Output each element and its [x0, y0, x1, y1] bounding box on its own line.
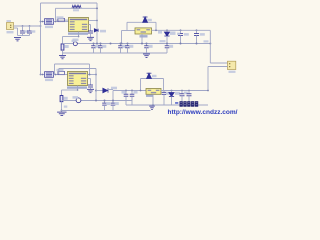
zener ZD1 — [164, 32, 169, 36]
capacitor C7 — [194, 34, 199, 36]
ground bypass2 — [87, 89, 94, 92]
node choke right — [55, 21, 57, 23]
label C6b — [177, 33, 180, 35]
junction J1 rail / C2 — [29, 25, 31, 27]
wire output right vertical — [209, 30, 211, 63]
capacitor C9 — [124, 94, 129, 96]
wire input cap B lead — [131, 91, 133, 95]
wire R2 to gnd rail — [62, 50, 64, 55]
wire J1 pin2 down — [14, 27, 18, 29]
wire Y-cap 4 top lead — [127, 44, 129, 46]
capacitor C13 — [162, 92, 167, 94]
label L2 — [45, 79, 53, 81]
capacitor C11 — [180, 94, 185, 96]
label ZD2 — [175, 92, 180, 95]
wire reg input — [122, 30, 136, 32]
wire to J2 pin2 — [208, 66, 228, 68]
label R2 — [65, 45, 69, 48]
junction rail / right vertical — [209, 43, 211, 45]
wire loop2 right down — [163, 79, 165, 91]
wire C7 bottom lead — [196, 36, 198, 44]
junction CY4 on rail — [127, 43, 129, 45]
capacitor C3 — [88, 31, 93, 33]
wire input ground rail — [18, 35, 30, 37]
wire Y-cap2 1 top lead — [104, 101, 106, 104]
wire rail to choke — [41, 21, 45, 23]
regulator U2 text — [137, 29, 150, 33]
wire Y-cap2 1 bottom lead — [104, 105, 106, 110]
capacitor C6 — [178, 34, 183, 36]
wire Y-cap 1 top lead — [93, 44, 95, 46]
wire bypass2 to gnd — [90, 87, 92, 89]
wire Y-cap 3 bottom lead — [120, 48, 122, 53]
junction drain line / rail — [96, 43, 98, 45]
svg-text:http://www.cndzz.com/: http://www.cndzz.com/ — [168, 109, 238, 116]
wire R3 to gnd — [61, 102, 63, 111]
diode D3 — [103, 88, 108, 93]
capacitor CY1 — [91, 46, 96, 48]
wire rail2 to choke — [41, 74, 45, 76]
IC U1 — [69, 18, 89, 32]
junction zener / output — [166, 29, 168, 31]
label C7 — [200, 33, 205, 36]
label C13 — [166, 92, 170, 95]
junction loop / output — [155, 29, 157, 31]
junction input cap B — [131, 90, 133, 92]
label C11 — [184, 92, 188, 95]
label CY5 — [106, 102, 110, 105]
watermark dash — [175, 102, 178, 104]
resistor R2 — [61, 44, 64, 50]
wire gnd2 stem — [61, 111, 63, 112]
junction CY2 on rail — [100, 43, 102, 45]
wire feedback2 inner left — [58, 69, 60, 75]
wire input cap A bottom — [125, 96, 127, 105]
label C4 — [148, 45, 152, 48]
wire reg2 gnd pin — [152, 94, 154, 105]
wire Y-cap2 2 top lead — [112, 101, 114, 104]
junction bus / rail — [40, 21, 42, 23]
wire output2 rail — [161, 90, 208, 92]
wire sense vertical — [62, 37, 64, 44]
wire bypass cap lead — [90, 25, 92, 32]
label F2 — [57, 69, 64, 71]
wire IC2 pin B — [88, 78, 91, 80]
wire loop left upper — [126, 22, 128, 30]
wire loop right down — [155, 22, 157, 30]
wire secondary return — [121, 31, 123, 44]
label C1 — [24, 30, 28, 32]
ground output filter — [143, 54, 150, 57]
label J1 — [7, 31, 14, 33]
capacitor C4 — [144, 46, 149, 48]
label reg right — [158, 31, 162, 34]
wire secondary loop top — [127, 21, 156, 23]
wire C12 bottom lead — [188, 96, 190, 105]
resistor R3 — [60, 96, 63, 102]
node source2 — [77, 89, 79, 91]
wire outer feedback top — [41, 2, 98, 4]
wire secondary2 ground rail — [62, 110, 151, 112]
regulator U2 — [135, 28, 152, 34]
capacitor CY4 — [125, 46, 130, 48]
wire bypass2 lead — [90, 79, 92, 86]
label C5 — [169, 45, 173, 48]
component F2 — [58, 71, 65, 74]
capacitor C8 — [88, 85, 93, 87]
wire choke2 to node — [54, 74, 58, 76]
wire C7 top lead — [196, 30, 198, 33]
connector J1 pin mark 2 — [10, 27, 11, 28]
wire feedback2 inner top — [59, 68, 96, 70]
node circle meter2 — [76, 98, 81, 103]
inductor L2 — [45, 72, 54, 78]
label CY1 — [95, 45, 99, 48]
wire secondary ground rail — [63, 52, 168, 54]
wire C1 bottom lead — [22, 33, 24, 36]
label U3 — [67, 86, 87, 88]
junction zener / gnd rail — [166, 43, 168, 45]
wire IC pin B — [89, 24, 91, 26]
label gnd2 — [64, 106, 68, 108]
wire C2 bottom lead — [29, 33, 31, 36]
junction pin2 wire / output — [207, 90, 209, 92]
wire primary2 ground rail — [62, 100, 133, 102]
wire drain vertical — [96, 21, 98, 44]
label C9 — [122, 91, 126, 94]
junction drain2 / rail — [95, 100, 97, 102]
capacitor C1 — [20, 31, 25, 33]
wire F1 to IC — [65, 21, 69, 23]
node rail mid — [110, 43, 112, 45]
wire Y-cap 2 bottom lead — [100, 48, 102, 53]
connector J2 pin mark 2 — [229, 66, 230, 67]
wire Y-cap2 2 bottom lead — [112, 105, 114, 110]
wire C1 top lead — [22, 26, 24, 31]
label meter2 — [73, 96, 79, 99]
label meter — [72, 40, 77, 42]
zener ZD2 — [169, 93, 174, 97]
label F1 — [57, 16, 64, 18]
junction pin A2 / inner loop — [95, 74, 97, 76]
label net right — [204, 40, 209, 42]
node choke2 left — [42, 74, 44, 76]
node source — [78, 36, 80, 38]
wire Y-cap 3 top lead — [120, 44, 122, 46]
connector J2 pin marks — [229, 63, 230, 64]
capacitor CY6 — [111, 103, 116, 105]
capacitor C2 — [27, 31, 32, 33]
junction zener2 / output — [171, 90, 173, 92]
wire cap C5 bottom — [166, 48, 168, 53]
capacitor CY5 — [102, 103, 107, 105]
node circle meter — [73, 42, 77, 46]
wire snubber lead — [96, 90, 103, 92]
wire Y-cap 1 bottom lead — [93, 48, 95, 53]
wire pin2 vertical — [17, 28, 19, 36]
junction pin A / drain line — [96, 20, 98, 22]
junction C4 rail — [146, 43, 148, 45]
wire choke to node — [54, 21, 58, 23]
junction C12 / output — [188, 90, 190, 92]
junction input cap A — [125, 90, 127, 92]
ground regulator2 — [149, 106, 155, 109]
junction C7 / gnd rail — [196, 43, 198, 45]
ground sense — [59, 55, 66, 58]
label D1 — [100, 30, 106, 33]
wire zener2 bottom lead — [171, 97, 173, 106]
connector J2 — [228, 61, 236, 69]
label R1 — [73, 9, 79, 11]
wire inner feedback left — [55, 8, 57, 20]
IC U3 — [68, 72, 88, 86]
regulator U4 text — [148, 90, 160, 94]
connector J1 — [7, 23, 14, 30]
wire sense2 vertical — [61, 90, 63, 96]
wire cap C5 top — [166, 44, 168, 46]
ground bypass — [87, 37, 94, 40]
connector J1 pin marks — [10, 25, 11, 26]
label D2 — [147, 19, 152, 21]
capacitor C12 — [187, 94, 192, 96]
label ZD1 — [170, 32, 176, 35]
wire pin stub upper — [56, 19, 69, 21]
ground sense2 — [57, 112, 66, 115]
diode D4 — [147, 73, 152, 78]
label CY4 — [129, 45, 133, 48]
junction CY3 on rail — [120, 43, 122, 45]
junction R3 / rail — [61, 110, 63, 112]
wire drain2 vertical — [95, 69, 97, 101]
label C5 top — [160, 40, 166, 42]
junction C6 / gnd rail — [180, 43, 182, 45]
label R3 — [64, 97, 68, 100]
wire pin2 vertical — [207, 67, 209, 91]
label C6 — [184, 33, 189, 36]
resistor R1 — [72, 5, 81, 8]
junction J1 rail / C1 — [22, 25, 24, 27]
wire cap C4 bottom — [146, 48, 148, 53]
capacitor C5 — [165, 46, 170, 48]
label U1 — [68, 32, 88, 34]
label J1 above — [7, 20, 12, 22]
wire input cap A lead — [125, 91, 127, 95]
wire feedback2 outer left — [54, 64, 56, 75]
wire source to sense — [63, 36, 79, 38]
junction C11 / output — [181, 90, 183, 92]
wire zener bottom lead — [166, 36, 168, 44]
junction loop2 / input — [140, 90, 142, 92]
junction reg gnd / rail — [141, 43, 143, 45]
inductor L1 — [45, 19, 54, 25]
junction CY1 on rail — [93, 43, 95, 45]
label J2 below — [229, 71, 236, 73]
node choke left — [42, 21, 44, 23]
node choke2 right — [55, 74, 57, 76]
wire C11 top lead — [181, 91, 183, 94]
wire zener2 top lead — [171, 91, 173, 93]
wire feedback2 outer top — [55, 63, 90, 65]
wire loop2 left vertical — [140, 79, 142, 91]
wire IC source pin down — [78, 32, 80, 37]
label D3 — [111, 87, 117, 90]
wire source2 to sense — [62, 89, 78, 91]
capacitor C10 — [130, 94, 135, 96]
junction bus / rail2 — [40, 74, 42, 76]
wire C2 top lead — [29, 26, 31, 31]
junction C7 / output — [196, 29, 198, 31]
label D4 — [152, 75, 157, 77]
wire snubber drop — [112, 91, 114, 101]
junction CY6 on rail — [112, 100, 114, 102]
wire J1 to bus node — [14, 25, 41, 27]
wire IC right pin A — [89, 20, 98, 22]
wire feedback2 outer right — [89, 64, 91, 75]
wire IC2 source down — [77, 86, 79, 91]
wire C6 bottom lead — [180, 36, 182, 44]
wire loop2 top — [141, 78, 164, 80]
ground input filter — [14, 38, 21, 41]
component F1 — [58, 18, 65, 21]
label U4 — [146, 95, 153, 97]
junction J1 rail / bus — [40, 25, 42, 27]
wire Y-cap 4 bottom lead — [127, 48, 129, 53]
junction inner loop / drain line — [96, 7, 98, 9]
label C2 — [31, 30, 35, 32]
junction reg2 gnd / rail — [152, 104, 154, 106]
wire secondary2 gnd rail — [126, 104, 208, 106]
IC U1 pin names — [70, 19, 87, 30]
junction drain2 / snubber — [95, 90, 97, 92]
wire snubber to reg — [113, 90, 146, 92]
wire cap C13 bottom — [163, 94, 165, 105]
junction pin A2 / outer — [89, 74, 91, 76]
wire bypass cap to gnd — [90, 33, 92, 37]
regulator U4 — [146, 89, 161, 95]
wire IC2 right pin A — [88, 74, 97, 76]
wire primary ground rail — [63, 43, 211, 45]
wire C11 bottom lead — [181, 96, 183, 105]
label CY6 — [115, 102, 119, 105]
wire input cap B bottom — [131, 96, 133, 105]
junction CY5 on rail — [104, 100, 106, 102]
wire output rail — [152, 29, 211, 31]
diode D1 — [94, 29, 98, 32]
wire outer feedback right — [96, 3, 98, 21]
wire C6 top lead — [180, 30, 182, 33]
wire snubber to drop — [108, 89, 113, 91]
watermark title — [180, 101, 199, 107]
label U2 — [140, 35, 148, 37]
wire DC bus vertical — [40, 3, 42, 75]
capacitor CY2 — [98, 46, 103, 48]
IC U3 pin names — [69, 73, 86, 84]
wire Y-cap 2 top lead — [100, 44, 102, 46]
wire reg gnd pin — [141, 34, 143, 44]
wire cap C4 top — [146, 44, 148, 46]
junction return / gnd rail — [121, 43, 123, 45]
label CY3 — [122, 45, 126, 48]
diode D2 — [143, 17, 148, 22]
wire F2 to IC2 — [65, 74, 68, 76]
wire to J2 pin1 — [210, 62, 227, 64]
wire inner feedback top — [56, 7, 98, 9]
label C10 — [134, 91, 138, 94]
wire cap C13 lead — [163, 91, 165, 93]
capacitor CY3 — [118, 46, 123, 48]
label CY2 — [102, 45, 106, 48]
wire zener top lead — [166, 30, 168, 32]
wire C12 top lead — [188, 91, 190, 94]
label L1 — [45, 26, 53, 28]
label U1 note — [73, 39, 79, 42]
junction C6 / output — [180, 29, 182, 31]
